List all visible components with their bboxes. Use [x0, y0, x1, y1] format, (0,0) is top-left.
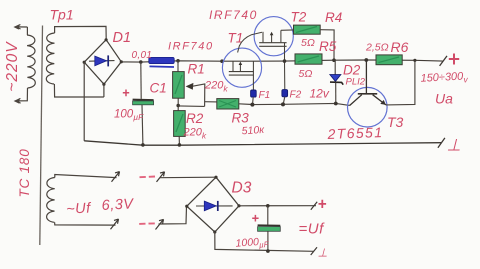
svg-text:2,5Ω: 2,5Ω — [365, 42, 389, 54]
wire D3 minus output — [215, 232, 314, 251]
resistor R1 — [173, 61, 185, 111]
capacitor C1 — [133, 62, 154, 145]
mains arrow top — [13, 24, 19, 29]
T2 body arrow — [270, 32, 274, 35]
filament terminal ground — [311, 247, 317, 255]
fuse F1 — [251, 90, 257, 105]
svg-text:~220V: ~220V — [4, 41, 21, 92]
svg-text:1000µF: 1000µF — [235, 235, 270, 251]
connector pin top right — [157, 172, 165, 182]
node R4/R5/D2 — [332, 58, 336, 62]
svg-text:R5: R5 — [319, 39, 337, 54]
mains arrow bottom — [14, 98, 20, 103]
T3 emitter arrow — [380, 100, 386, 105]
transformer Tp1 core — [40, 26, 43, 246]
node R5 left / T2 source — [283, 59, 287, 63]
wire R1/R2 junction to divider — [178, 105, 204, 108]
resistor R4 — [281, 25, 334, 60]
R1 wiper arrow — [186, 83, 218, 107]
connector pin bottom right — [156, 219, 164, 229]
svg-text:F2: F2 — [290, 90, 302, 101]
svg-text:0,01: 0,01 — [132, 50, 153, 61]
svg-text:100µF: 100µF — [114, 109, 144, 123]
filament terminal + — [311, 202, 317, 210]
svg-text:IRF740: IRF740 — [168, 41, 214, 53]
svg-text:R4: R4 — [325, 10, 342, 25]
resistor R6 — [376, 55, 402, 65]
svg-text:~Uf: ~Uf — [66, 200, 93, 217]
capacitor C4 — [258, 206, 281, 251]
node R1/R2 junction — [176, 104, 180, 108]
connector gap dashes bottom — [139, 222, 155, 225]
node F1 bottom — [250, 103, 254, 107]
transformer secondary winding (HV) — [46, 26, 106, 97]
svg-text:R2: R2 — [186, 111, 204, 126]
wire to D3 ac top — [160, 176, 217, 179]
node R1 top — [176, 59, 180, 63]
svg-text:T2: T2 — [291, 10, 307, 25]
node T1 gate — [220, 59, 224, 63]
svg-text:R6: R6 — [391, 39, 409, 55]
main positive wire — [121, 60, 443, 62]
node R6 right — [413, 59, 416, 62]
connector gap dashes top — [140, 176, 156, 179]
svg-text:Ua: Ua — [435, 91, 453, 107]
svg-text:5Ω: 5Ω — [299, 68, 313, 80]
transformer filament winding — [47, 175, 117, 226]
transistor T3 circle — [348, 87, 388, 127]
D3 corner junctions — [185, 176, 240, 234]
MOSFET T2 symbol — [238, 30, 287, 90]
svg-text:T3: T3 — [387, 114, 404, 130]
svg-text:⊥: ⊥ — [447, 137, 461, 155]
svg-text:D1: D1 — [113, 30, 132, 46]
MOSFET T1 symbol — [229, 61, 254, 90]
MOSFET T2 circle — [254, 17, 293, 56]
transistor T3 symbol — [350, 60, 386, 106]
svg-text:R3: R3 — [232, 111, 250, 126]
MOSFET T1 circle — [222, 48, 261, 87]
svg-text:5Ω: 5Ω — [301, 37, 315, 49]
svg-text:TC 180: TC 180 — [17, 148, 32, 197]
wire T3 emitter to output — [386, 60, 415, 105]
svg-text:D2: D2 — [343, 63, 361, 78]
fuse F2 — [282, 90, 288, 105]
ground rail (top circuit) — [84, 141, 441, 145]
bridge rectifier D1 — [84, 40, 121, 84]
T1 body arrow — [239, 62, 243, 65]
ground terminal (top circuit) — [438, 138, 445, 148]
svg-text:C1: C1 — [150, 81, 167, 96]
C4 plus sign — [252, 215, 258, 222]
svg-text:D3: D3 — [232, 180, 252, 197]
transformer Tp1 primary winding — [16, 25, 35, 104]
wire bridge minus to ground rail — [84, 62, 104, 141]
node C4 top — [266, 204, 270, 208]
D3 inner diode — [196, 201, 233, 211]
wire to D3 ac bottom — [159, 206, 187, 224]
bridge rectifier D3 — [187, 177, 239, 232]
svg-text:Tp1: Tp1 — [50, 7, 74, 23]
C1 plus sign — [123, 90, 129, 97]
svg-text:150÷300v: 150÷300v — [420, 70, 468, 86]
node C1 ground — [141, 143, 145, 147]
resistor R2 — [174, 111, 186, 145]
D1 corner junctions — [83, 38, 123, 86]
svg-text:220k: 220k — [204, 80, 228, 94]
svg-text:510к: 510к — [241, 124, 265, 138]
svg-text:12v: 12v — [310, 87, 330, 101]
resistor 0,01 (blue) — [149, 57, 174, 67]
node C4 bottom — [266, 249, 270, 253]
resistor R3 — [217, 99, 253, 109]
zener diode D2 — [330, 60, 343, 103]
label + (Ua) — [449, 54, 459, 65]
node D2 bottom — [334, 102, 338, 106]
output terminal + (Ua) — [440, 56, 447, 66]
svg-text:PLI2: PLI2 — [346, 77, 366, 88]
node after bridge — [139, 60, 143, 64]
label + (Uf) — [319, 200, 327, 208]
svg-text:6,3V: 6,3V — [101, 196, 134, 214]
feedback wire R3 to T3 — [252, 103, 349, 105]
svg-text:=Uf: =Uf — [299, 221, 326, 238]
D1 inner diode — [89, 55, 115, 66]
svg-text:220k: 220k — [183, 127, 207, 141]
svg-text:F1: F1 — [259, 90, 271, 101]
node F2 bottom — [281, 102, 285, 106]
connector pin top left — [112, 172, 120, 182]
node R6 left — [364, 58, 368, 62]
svg-text:2T6551: 2T6551 — [326, 124, 383, 142]
svg-text:R1: R1 — [188, 62, 205, 77]
wire D3 plus output — [239, 205, 316, 207]
svg-text:⊥: ⊥ — [318, 248, 328, 260]
resistor R5 — [295, 54, 322, 64]
connector pin bottom left — [111, 219, 119, 229]
svg-text:IRF740: IRF740 — [209, 8, 258, 22]
node R2 ground — [178, 143, 182, 147]
